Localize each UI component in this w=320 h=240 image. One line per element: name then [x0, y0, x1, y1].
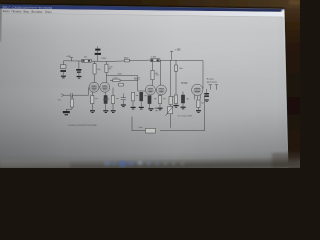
svg-text:Файл: Файл — [2, 9, 9, 13]
svg-text:По схеме 1948г.: По схеме 1948г. — [178, 115, 193, 117]
svg-text:390к: 390к — [124, 57, 129, 59]
svg-text:Вх.: Вх. — [58, 100, 62, 102]
svg-text:Правка: Правка — [11, 9, 21, 13]
svg-text:62к: 62к — [97, 69, 100, 71]
svg-text:Окно: Окно — [45, 10, 52, 14]
svg-text:+380: +380 — [66, 56, 72, 58]
svg-text:30к: 30к — [179, 68, 182, 70]
svg-text:240к: 240к — [117, 74, 122, 76]
svg-text:6Н2П: 6Н2П — [134, 77, 140, 80]
svg-text:Выход: Выход — [207, 79, 214, 81]
svg-text:+ 385: + 385 — [175, 48, 182, 51]
svg-text:100к: 100к — [138, 127, 143, 129]
svg-text:0,5М: 0,5М — [151, 57, 156, 59]
svg-text:51к: 51к — [156, 74, 159, 76]
svg-text:470К: 470К — [101, 58, 107, 60]
svg-text:6Н2П: 6Н2П — [103, 99, 109, 102]
svg-text:15к: 15к — [84, 57, 87, 59]
svg-text:(динамик): (динамик) — [207, 81, 217, 83]
svg-text:Вид: Вид — [23, 9, 29, 13]
svg-text:Схема усилителя Чистова: Схема усилителя Чистова — [69, 125, 98, 127]
svg-text:1М: 1М — [109, 66, 112, 68]
svg-text:Вставка: Вставка — [31, 10, 42, 14]
svg-text:6П3С: 6П3С — [181, 82, 188, 85]
